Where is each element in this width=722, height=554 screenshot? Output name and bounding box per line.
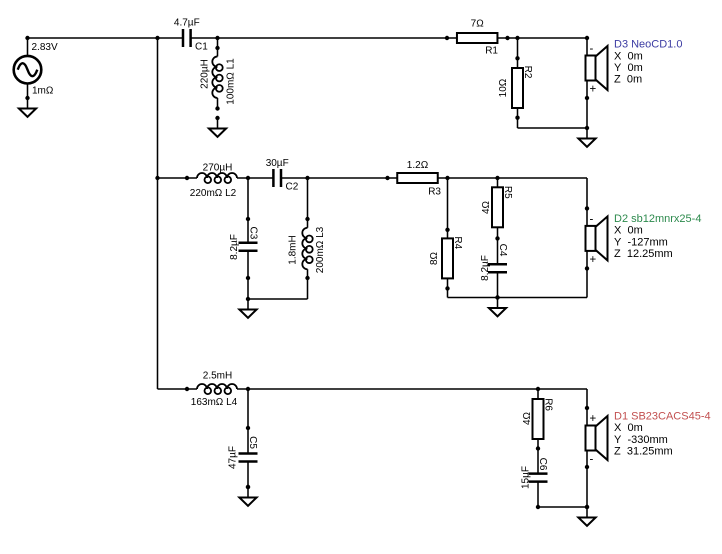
wire bottom return net (538, 506, 587, 508)
capacitor C4 8.2uF (488, 264, 507, 272)
node L1 bottom pin (215, 106, 219, 110)
wire D2 top lead (586, 178, 588, 208)
speaker D3 tweeter (586, 38, 608, 98)
inductor L3 1.8mH (301, 228, 313, 270)
inductor L2 270uH (197, 172, 237, 184)
voltage source V1 (14, 38, 42, 98)
svg-text:100mΩ L1: 100mΩ L1 (226, 58, 237, 105)
node C3 bottom pin (246, 276, 250, 280)
svg-text:D3 NeoCD1.0: D3 NeoCD1.0 (614, 39, 682, 51)
node D1 top pin (585, 406, 589, 410)
svg-text:2.5mH: 2.5mH (203, 371, 232, 382)
wire R6/C6 branch (537, 389, 539, 507)
ground at V1 (19, 96, 36, 117)
wire C5 branch (247, 389, 249, 487)
node R6/C6 junction pin (536, 446, 540, 450)
wire R5/C4 branch (497, 178, 499, 298)
wire bottom net (L4 to R6/D1) (158, 388, 588, 390)
svg-text:270µH: 270µH (203, 163, 233, 174)
node junction bus / L2 (155, 176, 159, 180)
wire D1 top lead (586, 389, 588, 408)
svg-text:4.7µF: 4.7µF (174, 18, 200, 29)
node junction C1 / L1 top (215, 36, 219, 40)
resistor R6 4 ohm (533, 399, 544, 439)
wire mid-left return (248, 298, 308, 300)
node D3 bottom pin (585, 96, 589, 100)
node R3 left pin (385, 176, 389, 180)
speaker D1 woofer (586, 408, 608, 468)
node junction D1 / ground (585, 505, 589, 509)
ground at L1 (209, 116, 226, 137)
wire R2 bottom to D3 return (518, 127, 588, 129)
node junction C2 / L3 (305, 176, 309, 180)
capacitor C2 30uF (273, 169, 281, 187)
wire L1 branch (217, 38, 219, 109)
inductor L1 220uH (211, 56, 223, 97)
node C5 bottom pin (246, 485, 250, 489)
svg-text:1mΩ: 1mΩ (32, 86, 54, 97)
ground at C5 (239, 485, 256, 506)
node R4 bottom pin (445, 286, 449, 290)
node junction L4 / C5 (246, 387, 250, 391)
capacitor C1 4.7uF (183, 29, 191, 47)
svg-text:7Ω: 7Ω (471, 19, 485, 30)
svg-text:1.2Ω: 1.2Ω (407, 160, 429, 171)
wire D1 bottom lead (586, 467, 588, 507)
resistor R4 8 ohm (442, 238, 453, 278)
svg-text:C4: C4 (497, 244, 508, 257)
node V1 top pin (25, 36, 29, 40)
node junction R3 / R4 (445, 176, 449, 180)
wire C3 branch (247, 178, 249, 299)
node junction L2 / C2 / C3 (246, 176, 250, 180)
svg-text:X 0m: X 0m (614, 422, 643, 434)
wire R2 branch (517, 38, 519, 128)
inductor L4 2.5mH (197, 383, 237, 395)
driver D3 info text (614, 39, 682, 86)
wire D2 bottom lead (586, 268, 588, 297)
wire D3 bottom lead (586, 98, 588, 128)
node L3 top pin (305, 217, 309, 221)
driver D1 info text (614, 410, 711, 457)
svg-text:4Ω: 4Ω (522, 411, 533, 425)
svg-text:8Ω: 8Ω (429, 251, 440, 265)
svg-text:15µF: 15µF (520, 466, 531, 489)
svg-text:R1: R1 (485, 46, 498, 57)
svg-text:163mΩ L4: 163mΩ L4 (191, 397, 238, 408)
node junction C4 / return (495, 295, 499, 299)
ground at mid return (489, 295, 506, 316)
resistor R3 1.2 ohm (397, 173, 438, 183)
wire top net (V1 to R1/D3) (28, 37, 588, 39)
svg-text:R4: R4 (452, 236, 463, 249)
capacitor C5 47uF (239, 454, 258, 462)
speaker D2 midrange (586, 208, 608, 268)
node L3 bottom pin (305, 276, 309, 280)
node junction R5 top (495, 176, 499, 180)
svg-text:4Ω: 4Ω (481, 200, 492, 214)
svg-text:2.83V: 2.83V (32, 42, 58, 53)
svg-text:+: + (590, 84, 597, 96)
node L1 top pin (215, 46, 219, 50)
svg-text:Y 0m: Y 0m (614, 62, 643, 74)
svg-text:X 0m: X 0m (614, 225, 643, 237)
svg-text:47µF: 47µF (228, 446, 239, 469)
resistor R1 7 ohm (457, 33, 498, 43)
svg-text:+: + (590, 413, 597, 425)
svg-text:R3: R3 (428, 187, 441, 198)
svg-text:10Ω: 10Ω (498, 78, 509, 97)
node R4 top pin (445, 228, 449, 232)
capacitor C6 15uF (529, 474, 548, 482)
ground at D3 (578, 126, 595, 147)
ground at D1 (578, 505, 595, 526)
svg-text:Y -127mm: Y -127mm (614, 236, 668, 248)
node L4 left pin (185, 387, 189, 391)
svg-text:R2: R2 (522, 66, 533, 79)
node C5 top pin (246, 426, 250, 430)
node D3 top pin (585, 36, 589, 40)
svg-text:1.8mH: 1.8mH (288, 235, 299, 264)
svg-text:220mΩ L2: 220mΩ L2 (190, 188, 237, 199)
node R2 bottom pin (515, 116, 519, 120)
node L2 left pin (185, 176, 189, 180)
svg-text:200mΩ L3: 200mΩ L3 (315, 226, 326, 273)
node junction C6 / return (536, 505, 540, 509)
node C3 top pin (246, 217, 250, 221)
driver D2 info text (614, 213, 701, 260)
svg-text:220µH: 220µH (200, 59, 211, 89)
svg-text:30µF: 30µF (266, 158, 289, 169)
svg-text:Z 0m: Z 0m (614, 74, 642, 86)
svg-text:D2 sb12mnrx25-4: D2 sb12mnrx25-4 (614, 213, 701, 225)
svg-text:8.2µF: 8.2µF (229, 234, 240, 260)
node junction bus / C1 (155, 36, 159, 40)
svg-text:D1 SB23CACS45-4: D1 SB23CACS45-4 (614, 410, 711, 422)
node R1 right pin (505, 36, 509, 40)
svg-text:C1: C1 (195, 42, 208, 53)
node D1 bottom pin (585, 465, 589, 469)
capacitor C3 8.2uF (239, 243, 258, 251)
svg-text:-: - (590, 213, 594, 225)
node junction R1 / R2 (515, 36, 519, 40)
node R2 top pin (515, 56, 519, 60)
svg-text:+: + (590, 254, 597, 266)
resistor R2 10 ohm (512, 68, 523, 108)
svg-text:C5: C5 (247, 436, 258, 449)
svg-text:C6: C6 (537, 458, 548, 471)
ground at C3/L3 (239, 297, 256, 318)
node junction R6 top (536, 387, 540, 391)
svg-text:Z 31.25mm: Z 31.25mm (614, 446, 673, 458)
svg-text:-: - (590, 454, 594, 466)
svg-text:R6: R6 (543, 398, 554, 411)
node D2 bottom pin (585, 266, 589, 270)
wire R4 branch (447, 178, 449, 298)
node D2 top pin (585, 206, 589, 210)
wire mid net (L2/C2/R3) (158, 177, 588, 179)
wire mid return net (448, 297, 588, 299)
svg-text:Y -330mm: Y -330mm (614, 434, 668, 446)
svg-text:C2: C2 (286, 182, 299, 193)
svg-text:-: - (590, 43, 594, 55)
wire main bus vertical (157, 38, 159, 389)
node R1 left pin (445, 36, 449, 40)
svg-text:8.2µF: 8.2µF (480, 255, 491, 281)
svg-text:R5: R5 (502, 186, 513, 199)
resistor R5 4 ohm (492, 187, 503, 227)
svg-text:C3: C3 (248, 227, 259, 240)
node R5/C4 junction pin (495, 236, 499, 240)
svg-text:X 0m: X 0m (614, 50, 643, 62)
svg-text:Z 12.25mm: Z 12.25mm (614, 248, 673, 260)
wire L3 branch (307, 178, 309, 299)
